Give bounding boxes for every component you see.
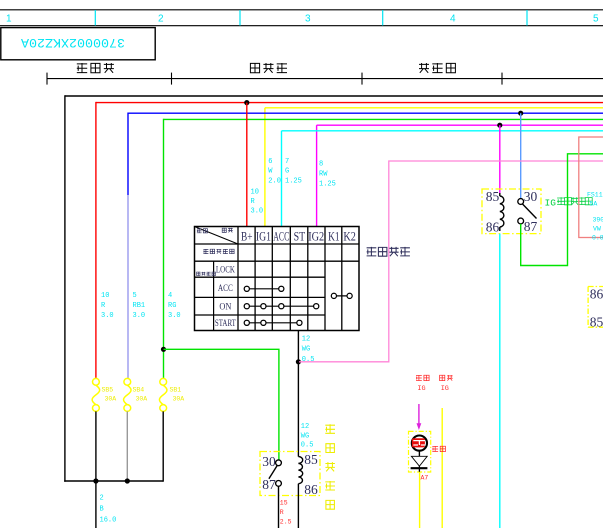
svg-text:86: 86 [486,220,500,235]
wire green horizontal [164,118,603,120]
svg-text:2: 2 [100,495,104,503]
wire yellow below instrument module [419,472,421,528]
ground bar [411,467,428,469]
junction magenta to relay coil [497,123,502,128]
junction ST to instrument feed [296,359,301,364]
label starter 起动机 [250,63,287,73]
START row contact line B+ to ST [247,322,300,324]
svg-text:8: 8 [319,161,323,169]
ground triangle [411,456,427,466]
wire pink ST branch [298,161,603,362]
wire cyan ACC drop to switch [281,131,283,227]
svg-text:3.0: 3.0 [251,208,264,216]
svg-text:2.5: 2.5 [280,519,292,526]
table row line key-out bottom [195,260,360,262]
ON row contact line B+ to IG2 [247,305,316,307]
svg-text:K2: K2 [343,229,356,243]
label 仪表 IG (left) [416,375,429,381]
IG relay K2 box [482,189,541,234]
IG relay pin87 contact [518,218,524,224]
IG relay pin30 contact [518,199,524,205]
gauge stem [418,451,420,457]
svg-text:86: 86 [590,287,603,302]
fuse SB4 30A [124,378,131,385]
wire black below fuse SB5 [95,411,97,481]
right-edge relay box (partial) [587,287,589,328]
IG relay coil [500,196,504,227]
svg-text:86: 86 [304,482,318,497]
section tick starter/alternator [361,73,363,85]
svg-text:0.5: 0.5 [302,356,315,364]
svg-text:ST: ST [294,229,306,243]
zone tick 2-3 [239,10,241,26]
wire blue vertical upper [127,113,129,196]
ignition switch table outer box [195,227,360,331]
junction blue to relay 30 [518,111,523,116]
wire black below starter relay coil to ground [297,484,299,528]
starter relay pin30 contact [276,460,282,466]
wire gray below fuse SB4 [126,411,128,481]
svg-text:5: 5 [133,292,137,300]
table header 档位 [197,228,208,233]
wire black below fuse SB1 [162,411,164,481]
section divider line [47,78,603,80]
title block box [1,28,155,60]
svg-text:15: 15 [280,500,288,507]
table key-in sub-divider [213,261,215,330]
table column lines [237,227,239,331]
starter relay blade [269,465,277,478]
wire green vertical to fuse SB1 [163,119,165,379]
table header diagonal [195,227,239,245]
svg-text:ACC: ACC [273,229,289,243]
svg-text:7: 7 [285,158,289,166]
wire violet vertical lower to fuse SB4 [127,195,129,379]
zone tick 3-4 [382,10,384,26]
svg-text:2: 2 [158,14,164,25]
svg-text:ON: ON [219,301,231,311]
wire magenta IG2 horizontal [317,124,603,126]
svg-text:B+: B+ [241,229,253,243]
svg-text:85: 85 [304,452,318,467]
svg-text:SB1: SB1 [170,387,182,394]
junction bus-SB5 [93,478,98,483]
section tick alternator right [501,73,503,85]
svg-text:LOCK: LOCK [216,264,235,274]
table header 脚位 [222,228,233,233]
wire magenta IG2 drop to switch [316,125,318,226]
svg-text:3.0: 3.0 [133,312,146,320]
magenta off-page arrow to instrument IG [418,404,420,424]
svg-text:10: 10 [251,188,259,196]
svg-text:ACC: ACC [218,283,233,293]
svg-text:SB5: SB5 [102,387,114,394]
wire green from IG relay pin87 loop to right edge [521,154,603,266]
svg-text:10: 10 [101,292,109,300]
svg-text:R: R [280,509,284,516]
table row label 钥匙插入 [197,272,216,276]
wire green branch to starter relay pin30 [164,349,279,460]
ground bus bottom horizontal [64,480,163,482]
svg-text:30A: 30A [136,396,148,403]
svg-text:390: 390 [593,217,603,224]
connector box (salmon) [579,137,603,238]
gauge symbol ring [412,436,427,451]
zone band bottom border [0,25,603,27]
ACC row contact line B+ to ACC [247,288,281,290]
wire red drop to switch B+ [246,103,248,227]
zone tick 1-2 [94,10,96,26]
section tick battery/starter [171,73,173,85]
svg-text:12: 12 [302,336,310,344]
svg-text:SB4: SB4 [133,387,145,394]
starter relay K1 box [260,452,320,496]
svg-text:IG: IG [417,385,425,393]
svg-text:30: 30 [262,454,276,469]
wire blue horizontal [128,112,603,114]
table row line header bottom [195,243,360,245]
wire magenta drop to relay K2 pin85 [499,125,501,193]
svg-text:16.0: 16.0 [100,517,117,525]
wire yellow instrument feed right [441,408,443,528]
label 仪表 next to gauge [432,446,445,452]
wire ground vertical (black) [64,95,66,481]
table row line ACC bottom [195,296,326,298]
svg-text:6: 6 [268,158,272,166]
svg-text:30: 30 [524,189,538,204]
svg-text:A7: A7 [421,475,429,482]
svg-text:3700002XKZ20A: 3700002XKZ20A [21,35,125,50]
svg-text:85: 85 [590,315,603,330]
svg-text:3.0: 3.0 [101,312,114,320]
svg-text:12: 12 [301,423,309,431]
svg-text:G: G [285,168,289,176]
svg-text:85: 85 [486,189,500,204]
table row line ON bottom [195,314,326,316]
wire cyan ACC horizontal [282,130,603,132]
svg-text:30A: 30A [105,396,117,403]
K1-K2 contact pair [334,295,350,297]
label battery 蓄电池 [77,63,114,73]
ground stub [418,466,420,472]
wire cyan from IG relay pin86 down [499,234,501,528]
svg-text:30A: 30A [173,396,185,403]
svg-text:87: 87 [262,477,276,492]
svg-text:WG: WG [302,346,310,354]
instrument module A7 box [409,431,431,472]
junction green branch [161,347,166,352]
starter relay pin87 contact [276,481,282,487]
svg-text:0.85: 0.85 [592,235,603,242]
IG relay blade [523,204,537,219]
label alternator 发电机 [419,63,455,73]
svg-text:4: 4 [450,14,456,25]
fuse SB5 30A [93,378,100,385]
label 仪表 IG (right) [440,375,453,381]
svg-text:K1: K1 [328,229,340,243]
svg-text:IG2: IG2 [308,229,324,243]
wire light-blue drop to relay K2 pin30 [520,113,522,198]
table row label 钥匙未插入 [203,249,234,254]
svg-text:3.0: 3.0 [168,312,181,320]
junction bus-SB4 [125,478,130,483]
starter relay coil [298,457,302,484]
svg-text:1: 1 [6,14,12,25]
svg-text:4: 4 [168,292,172,300]
svg-text:RW: RW [319,170,328,178]
wire ground bus horizontal (black) [65,95,603,97]
table row line LOCK bottom [195,276,326,278]
svg-text:1.25: 1.25 [319,180,336,188]
wire battery negative to bottom [95,481,97,528]
zone band top border [0,9,603,11]
svg-text:2.0: 2.0 [268,177,281,185]
svg-text:RG: RG [168,302,176,310]
svg-text:IG1: IG1 [256,229,271,243]
svg-text:3: 3 [305,14,311,25]
section tick left [46,73,48,85]
wire B+ red vertical to fuse SB5 [95,102,97,379]
svg-text:VW: VW [593,226,601,233]
svg-text:WG: WG [301,432,309,440]
wire yellow IG1 drop to switch [264,108,266,227]
label ignition switch 点火开关 [367,247,410,256]
svg-text:IG: IG [545,198,557,209]
zone tick 4-5 [526,10,528,26]
svg-text:1.25: 1.25 [285,177,302,185]
svg-text:IG: IG [441,385,449,393]
svg-text:0.5: 0.5 [301,442,314,450]
svg-text:5A: 5A [590,201,598,208]
svg-text:RB1: RB1 [133,302,146,310]
fuse SB1 30A [160,378,167,385]
junction red B+ feed [244,100,249,105]
svg-text:B: B [100,506,104,514]
gauge symbol red face [412,438,425,447]
svg-text:5: 5 [593,14,599,25]
label starter relay 起动继电器 vertical [325,424,335,433]
wire ST black vertical from switch to starter relay coil [297,331,299,457]
wire B+ red horizontal [96,102,603,104]
wire black from pin87 down [278,486,280,528]
svg-text:87: 87 [524,219,538,234]
svg-text:START: START [215,318,236,328]
svg-text:FS11: FS11 [587,192,603,199]
wire yellow IG1 horizontal [265,107,603,109]
